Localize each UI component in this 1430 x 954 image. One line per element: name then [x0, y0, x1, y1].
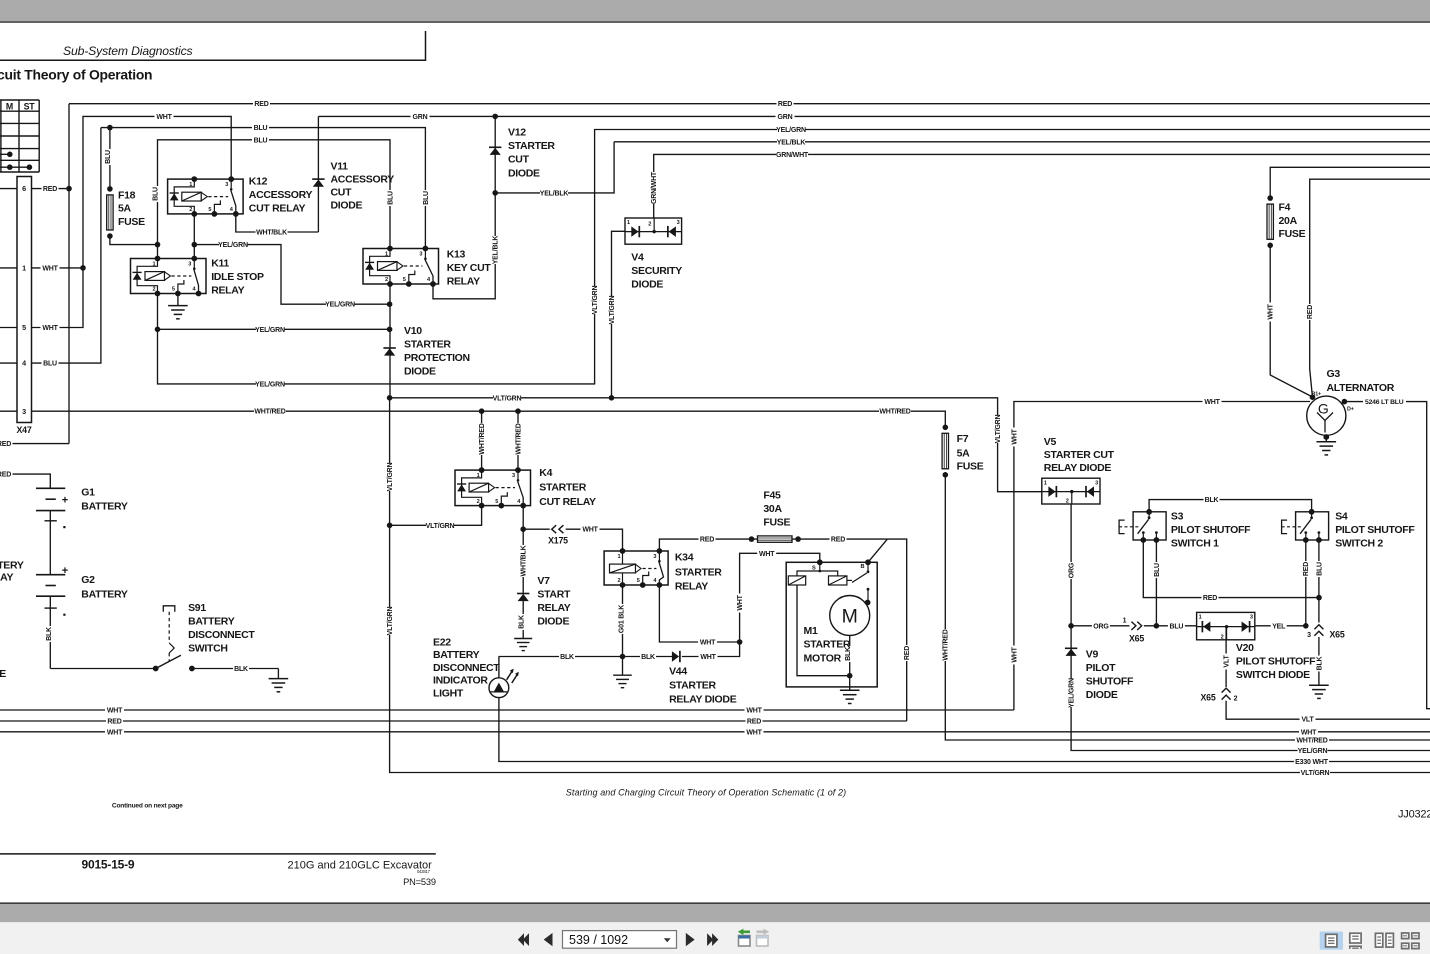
svg-text:3: 3 — [1250, 615, 1253, 621]
wire WHT/RED bus — [32, 411, 946, 427]
svg-text:WHT: WHT — [1011, 428, 1018, 444]
svg-text:DIODE: DIODE — [331, 200, 363, 212]
svg-text:4: 4 — [193, 287, 197, 293]
connector X65 pin2 chevrons — [1222, 688, 1231, 693]
wire GRN/WHT bus — [654, 154, 1430, 218]
wire V9 branch — [1071, 626, 1430, 751]
svg-text:SWITCH 2: SWITCH 2 — [1335, 538, 1383, 550]
svg-text:B1+: B1+ — [1312, 391, 1321, 397]
dualdiode V5 starter cut relay diode — [1042, 478, 1100, 504]
svg-text:RELAY: RELAY — [211, 285, 244, 297]
svg-text:YEL/BLK: YEL/BLK — [540, 190, 569, 197]
label RED bus right — [777, 100, 794, 108]
svg-text:WHT: WHT — [700, 640, 716, 647]
label WHT/BLK V7 — [519, 545, 527, 577]
motor M1 internals — [797, 562, 820, 576]
svg-text:YEL/GRN: YEL/GRN — [255, 327, 285, 334]
label YEL/BLK bus — [777, 138, 805, 146]
label wire BLU pin4 — [42, 359, 59, 367]
svg-text:WHT: WHT — [42, 265, 58, 272]
switch S3 pilot shutoff switch 1 — [1133, 512, 1166, 540]
svg-text:CUT: CUT — [508, 154, 530, 166]
wire F4 to alternator — [1270, 245, 1311, 396]
svg-text:WHT/RED: WHT/RED — [1296, 738, 1327, 745]
svg-text:STARTER: STARTER — [804, 639, 851, 651]
label VLT/GRN drop lower — [385, 607, 393, 635]
dualdiode V20 pilot shutoff switch diode left diode — [1203, 621, 1210, 631]
svg-text:RED: RED — [904, 646, 911, 660]
dualdiode V20 pilot shutoff switch diode right diode — [1242, 621, 1249, 631]
wire G2 negative BLK — [49, 596, 51, 668]
label GRN/WHT V4 riser — [650, 172, 658, 204]
svg-text:3: 3 — [677, 220, 680, 226]
label YEL/GRN K13 branch — [326, 300, 354, 308]
junction M1 gnd node — [847, 673, 853, 679]
svg-text:K11: K11 — [211, 258, 229, 270]
svg-text:G01 BLK: G01 BLK — [619, 605, 626, 633]
wire WHT alternator riser — [1014, 402, 1310, 711]
wire V20 pin2 VLT — [1225, 626, 1227, 687]
wire S91 gnd stem — [277, 669, 279, 679]
svg-text:BLK: BLK — [518, 615, 525, 629]
svg-text:VLT/GRN: VLT/GRN — [493, 395, 522, 402]
svg-text:VLT/GRN: VLT/GRN — [995, 414, 1002, 443]
wire V4 pin1 to VLT/GRN — [612, 231, 626, 397]
label WHT alternator — [1203, 397, 1222, 405]
wire BLK S3-S4 — [1149, 500, 1312, 512]
svg-text:BLK: BLK — [560, 654, 574, 661]
svg-text:BLU: BLU — [254, 137, 268, 144]
label WHT X175 — [581, 525, 600, 533]
wire K4 pin1 riser — [481, 411, 483, 470]
wire E22 BLK — [499, 656, 623, 658]
toolbar next view icon disabled — [757, 936, 769, 947]
svg-text:STARTER: STARTER — [669, 680, 716, 692]
svg-text:3: 3 — [419, 252, 422, 258]
label RED bus left — [106, 717, 123, 725]
svg-text:STARTER: STARTER — [508, 140, 555, 152]
label WHT bus1 left — [105, 706, 124, 714]
wire YEL/GRN mid — [158, 328, 390, 330]
label WHT bus2 right — [1299, 728, 1318, 736]
svg-text:STARTER: STARTER — [404, 339, 451, 351]
toolbar first page button — [523, 933, 529, 946]
svg-text:BLK: BLK — [1316, 656, 1323, 670]
wire X47 pin5 WHT — [32, 268, 84, 328]
svg-text:30A: 30A — [763, 503, 782, 515]
svg-text:CUT RELAY: CUT RELAY — [539, 496, 596, 508]
wire V5 pin2 ORG — [1070, 504, 1072, 626]
svg-text:WHT/RED: WHT/RED — [943, 629, 950, 660]
wire X47 pin 4 stub — [0, 362, 17, 364]
switch S4 pilot shutoff switch 2 — [1296, 512, 1329, 540]
svg-text:WHT: WHT — [42, 325, 58, 332]
label BLU K13 pin1 riser — [386, 190, 394, 206]
label WHT/RED bottom bus — [1295, 736, 1329, 744]
wire S4 left pin RED — [1305, 540, 1307, 626]
svg-text:BATTERY: BATTERY — [81, 501, 128, 513]
svg-text:JJ0322: JJ0322 — [1398, 809, 1430, 821]
wire VLT bus — [1226, 701, 1430, 719]
svg-text:WHT/RED: WHT/RED — [879, 409, 910, 416]
label BLK G2 — [44, 626, 52, 642]
svg-text:WHT: WHT — [1011, 646, 1018, 662]
wire K11 pin2 down — [158, 294, 596, 384]
junction table M dot — [7, 152, 13, 158]
junction YEL/GRN mid a — [155, 327, 161, 333]
label VLT bottom bus — [1300, 715, 1316, 723]
toolbar page number box — [563, 931, 677, 949]
wire RED to riser — [0, 443, 69, 445]
relay K12 accessory cut relay — [168, 179, 244, 214]
toolbar next page button — [686, 933, 695, 946]
junction WHT/RED K4 pin1 — [479, 408, 485, 414]
junction BLU F18 tap — [107, 125, 113, 131]
wire K13 pin2 / V10 column — [389, 284, 391, 398]
svg-text:DIODE: DIODE — [1086, 689, 1118, 701]
label BLK S91 — [233, 664, 249, 672]
label VLT/GRN bottom bus — [1300, 768, 1330, 776]
connector X65 pin1 chevrons — [1129, 620, 1144, 631]
wire WHT/BLK K12 pin4 — [236, 214, 319, 232]
ground G3 — [1317, 441, 1337, 443]
terminal B1+ G3 — [1310, 394, 1316, 400]
svg-text:4: 4 — [230, 207, 234, 213]
label VLT/GRN net — [493, 394, 521, 402]
toolbar single page view button active — [1320, 932, 1343, 950]
wire V44 WHT out — [682, 553, 820, 656]
label BLU K13 pin3 riser — [421, 190, 429, 206]
wire YEL/BLK link — [495, 142, 614, 193]
svg-text:RELAY DIODE: RELAY DIODE — [1044, 462, 1112, 474]
svg-text:YEL: YEL — [1272, 623, 1286, 630]
label YEL/BLK V12 lower — [491, 236, 499, 264]
wire WHT bottom bus 2 — [0, 731, 1430, 733]
svg-text:ORG: ORG — [1069, 562, 1076, 578]
label RED alt feed — [1306, 304, 1314, 320]
label RED bus mid — [746, 717, 763, 725]
battery G1 — [36, 487, 65, 489]
relay K34 starter relay — [604, 551, 668, 585]
ground X65-3 — [1309, 684, 1329, 686]
svg-text:RED: RED — [1303, 562, 1310, 576]
wire F18 bottom to YEL/GRN — [110, 236, 158, 245]
motor M1 starter motor — [786, 562, 877, 687]
label E330 WHT bus — [1294, 757, 1329, 765]
label BLK M1 — [843, 646, 851, 662]
svg-text:5: 5 — [637, 578, 640, 584]
svg-text:DIODE: DIODE — [631, 279, 663, 291]
toolbar previous view icon — [739, 936, 751, 947]
label YEL/BLK link — [540, 189, 568, 197]
label BLU S3 drop — [1152, 562, 1160, 578]
svg-text:RED: RED — [1307, 305, 1314, 319]
wire K12 pin2 down — [193, 214, 195, 259]
label YEL/GRN bottom bus — [1298, 746, 1328, 754]
svg-text:RED: RED — [747, 719, 761, 726]
svg-text:WHT: WHT — [1268, 303, 1275, 319]
label WHT K34 — [698, 638, 717, 646]
svg-text:E330 WHT: E330 WHT — [1295, 759, 1329, 766]
svg-text:WHT: WHT — [107, 729, 123, 736]
label wire WHT pin1 — [41, 264, 60, 272]
label RED F45 left — [699, 535, 716, 543]
svg-text:FUSE: FUSE — [118, 216, 145, 228]
svg-text:Starting and Charging Circuit: Starting and Charging Circuit Theory of … — [566, 788, 846, 798]
svg-text:RELAY DIODE: RELAY DIODE — [669, 694, 737, 706]
fuse F7 — [943, 425, 949, 431]
junction WHT/RED K4 pin3 — [515, 408, 521, 414]
svg-text:BLU: BLU — [43, 361, 57, 368]
junction X175 node — [520, 526, 526, 532]
label GRN bus right — [776, 112, 795, 120]
svg-text:BLU: BLU — [1316, 562, 1323, 576]
svg-text:LAY: LAY — [0, 572, 13, 584]
junction V12 YEL/BLK tap — [492, 190, 498, 196]
svg-text:X65: X65 — [1329, 630, 1344, 640]
toolbar last page button — [707, 933, 713, 946]
svg-text:K4: K4 — [539, 467, 552, 479]
toolbar light background — [0, 922, 1430, 954]
label WHT bus2 mid — [745, 728, 764, 736]
svg-text:WHT/RED: WHT/RED — [515, 423, 522, 454]
connector X65 pin3 chevrons — [1314, 625, 1323, 630]
svg-text:BATTERY: BATTERY — [188, 616, 235, 628]
label RED S4 drop — [1302, 561, 1310, 577]
svg-text:RED: RED — [831, 537, 845, 544]
svg-text:210G and 210GLC Excavator: 210G and 210GLC Excavator — [288, 860, 433, 872]
svg-text:V4: V4 — [631, 252, 644, 264]
svg-text:cuit Theory of Operation: cuit Theory of Operation — [0, 67, 152, 83]
diode V9 — [1065, 647, 1077, 649]
connector X47 body — [17, 177, 32, 423]
svg-text:E: E — [0, 668, 6, 680]
svg-text:WHT/RED: WHT/RED — [479, 423, 486, 454]
toolbar previous page button — [544, 933, 553, 946]
svg-text:FUSE: FUSE — [957, 461, 984, 473]
svg-text:5: 5 — [208, 207, 211, 213]
label ORG V5 — [1067, 562, 1075, 579]
svg-text:M: M — [6, 101, 13, 111]
svg-text:BLU: BLU — [1170, 623, 1184, 630]
svg-text:1: 1 — [153, 262, 156, 268]
svg-text:V12: V12 — [508, 127, 526, 139]
wire YEL/GRN bus — [595, 130, 1430, 384]
junction YEL/GRN a — [155, 242, 161, 248]
svg-text:PN=539: PN=539 — [403, 877, 436, 887]
relay K13 key cut relay — [363, 249, 439, 285]
wire BLK to V44 — [623, 656, 676, 658]
svg-text:M: M — [842, 606, 858, 628]
svg-text:LIGHT: LIGHT — [433, 687, 464, 699]
svg-text:G1: G1 — [81, 487, 95, 499]
svg-text:BLU: BLU — [254, 125, 268, 132]
svg-text:2: 2 — [1066, 499, 1069, 505]
svg-text:RED: RED — [254, 101, 268, 108]
svg-text:WHT: WHT — [746, 729, 762, 736]
label BLU K12 riser — [151, 186, 159, 202]
ground M1 — [840, 689, 860, 691]
svg-text:V44: V44 — [669, 666, 687, 678]
label VLT/GRN drop upper — [385, 463, 393, 491]
svg-text:PILOT SHUTOFF: PILOT SHUTOFF — [1236, 656, 1316, 668]
wire into table row M — [0, 153, 10, 155]
svg-text:SWITCH 1: SWITCH 1 — [1171, 538, 1219, 550]
svg-text:2: 2 — [153, 287, 156, 293]
svg-text:539 / 1092: 539 / 1092 — [569, 933, 628, 947]
svg-text:BLU: BLU — [423, 191, 430, 205]
wire E22 top — [498, 657, 500, 678]
label GRN/WHT bus — [776, 150, 808, 158]
svg-text:4: 4 — [517, 499, 521, 505]
svg-text:PROTECTION: PROTECTION — [404, 352, 470, 364]
svg-text:5: 5 — [22, 323, 26, 332]
wire YEL/BLK bus — [614, 141, 1430, 143]
wire X47 pin6 RED — [32, 188, 70, 190]
svg-text:3: 3 — [22, 407, 26, 416]
svg-text:RED: RED — [700, 537, 714, 544]
svg-text:4: 4 — [427, 277, 431, 283]
label WHT/RED F7 drop — [941, 629, 949, 661]
svg-text:WHT: WHT — [746, 708, 762, 715]
svg-text:BLK: BLK — [641, 654, 655, 661]
label WHT/RED K4 pin3 — [514, 423, 522, 455]
svg-text:B: B — [861, 564, 865, 570]
junction V12 tap GRN — [492, 114, 498, 120]
ground S91 — [269, 678, 289, 680]
wire S3 left pin RED — [1143, 540, 1319, 598]
label RED left2 — [0, 470, 13, 478]
wire F4 feed — [1270, 167, 1430, 198]
svg-text:YEL/GRN: YEL/GRN — [1298, 748, 1328, 755]
wire K34 pin3 RED — [659, 539, 887, 551]
dualdiode V4 security diode right diode — [669, 226, 676, 236]
label RED left1 — [0, 439, 13, 447]
svg-text:2: 2 — [648, 222, 651, 228]
wire RED diag to B — [868, 539, 887, 562]
label WHT M1 riser — [735, 594, 743, 613]
svg-text:RELAY: RELAY — [675, 580, 708, 592]
label WHT F4 — [1266, 303, 1274, 322]
svg-text:K34: K34 — [675, 552, 694, 564]
svg-text:PILOT SHUTOFF: PILOT SHUTOFF — [1171, 524, 1251, 536]
svg-text:STARTER CUT: STARTER CUT — [1044, 449, 1115, 461]
svg-text:VLT: VLT — [1224, 655, 1231, 668]
svg-text:4: 4 — [22, 359, 26, 368]
svg-text:WHT: WHT — [700, 654, 716, 661]
toolbar continuous view button — [1350, 933, 1361, 943]
svg-text:TTERY: TTERY — [0, 560, 24, 572]
junction VLT/GRN V4 tap — [609, 395, 615, 401]
label BLU bus1 — [252, 123, 269, 131]
label WHT/BLK — [256, 228, 288, 236]
wire VLT/GRN horizontal — [390, 398, 1042, 492]
junction YEL/GRN K13 — [387, 301, 393, 307]
svg-text:VLT/GRN: VLT/GRN — [426, 523, 455, 530]
wire 5246 LT BLU — [1344, 402, 1430, 709]
label WHT/RED bus left — [254, 407, 286, 415]
svg-text:V9: V9 — [1086, 649, 1099, 661]
junction VLT/GRN at V10 — [387, 395, 393, 401]
connector table M/ST grid — [0, 99, 39, 101]
label BLK V44 — [640, 652, 656, 660]
wire RED riser left — [68, 104, 70, 444]
dualdiode V20 pilot shutoff switch diode — [1197, 612, 1255, 639]
junction YEL/GRN b — [192, 242, 198, 248]
label YEL/GRN low — [256, 380, 284, 388]
svg-text:20A: 20A — [1279, 215, 1298, 227]
toolbar two page view button — [1375, 933, 1382, 947]
svg-text:GRN: GRN — [778, 114, 793, 121]
header box Sub-System Diagnostics — [0, 31, 426, 60]
wire G3 gnd stem — [1325, 435, 1327, 441]
wire F7 down WHT/RED — [945, 475, 1430, 740]
svg-text:YEL/GRN: YEL/GRN — [325, 302, 355, 309]
svg-text:5: 5 — [495, 499, 498, 505]
svg-text:S4: S4 — [1335, 511, 1348, 523]
svg-text:S3: S3 — [1171, 511, 1184, 523]
dualdiode V5 starter cut relay diode right diode — [1087, 486, 1094, 496]
svg-text:V20: V20 — [1236, 642, 1254, 654]
wire BLU bus 2 — [158, 140, 391, 249]
label WHT bus1 mid — [745, 706, 764, 714]
svg-text:GRN/WHT: GRN/WHT — [776, 152, 809, 159]
svg-text:1: 1 — [477, 473, 480, 479]
svg-text:VLT/GRN: VLT/GRN — [609, 295, 616, 324]
svg-text:1: 1 — [385, 252, 388, 258]
svg-text:MOTOR: MOTOR — [804, 652, 842, 664]
svg-text:WHT/BLK: WHT/BLK — [256, 230, 287, 237]
svg-text:STARTER: STARTER — [539, 481, 586, 493]
svg-text:BLK: BLK — [1205, 497, 1219, 504]
svg-text:VLT/GRN: VLT/GRN — [1301, 770, 1330, 777]
svg-text:YEL/GRN: YEL/GRN — [776, 127, 806, 134]
alternator G3 — [1307, 396, 1346, 435]
diode V11 — [312, 178, 324, 180]
svg-text:1: 1 — [1199, 615, 1202, 621]
svg-text:9015-15-9: 9015-15-9 — [82, 858, 135, 872]
svg-text:WHT: WHT — [107, 708, 123, 715]
svg-text:Sub-System Diagnostics: Sub-System Diagnostics — [63, 44, 193, 58]
wire BLU bus 1 — [101, 128, 426, 249]
label VLT/GRN mid riser — [590, 286, 598, 314]
svg-text:WHT: WHT — [737, 594, 744, 610]
svg-text:DIODE: DIODE — [508, 167, 540, 179]
wire X47 pin4 BLU — [32, 128, 101, 364]
svg-text:RED: RED — [0, 441, 11, 448]
wire V7 gnd stem — [522, 601, 524, 638]
junction WHT pin1 — [80, 265, 86, 271]
svg-text:YEL/BLK: YEL/BLK — [493, 236, 500, 265]
fuse F18 — [107, 186, 113, 192]
wire YEL V20 to S4 — [1255, 625, 1306, 627]
label VLT V20 — [1222, 654, 1230, 670]
label WHT V44 — [699, 652, 718, 660]
svg-text:D+: D+ — [1347, 407, 1354, 413]
svg-text:X65: X65 — [1129, 634, 1144, 644]
svg-text:INDICATOR: INDICATOR — [433, 675, 488, 687]
svg-text:K13: K13 — [447, 249, 466, 261]
wire into table row M/ST — [0, 166, 29, 168]
label WHT/RED K4 pin1 — [477, 423, 485, 455]
wire S91 to gnd — [192, 668, 279, 670]
label BLU X65 — [1168, 622, 1185, 630]
svg-text:3: 3 — [188, 262, 191, 268]
svg-text:Continued on next page: Continued on next page — [112, 802, 183, 809]
svg-text:F18: F18 — [118, 190, 136, 202]
relay K11 idle stop relay — [131, 259, 207, 294]
wire G1-G2 link — [49, 511, 51, 575]
